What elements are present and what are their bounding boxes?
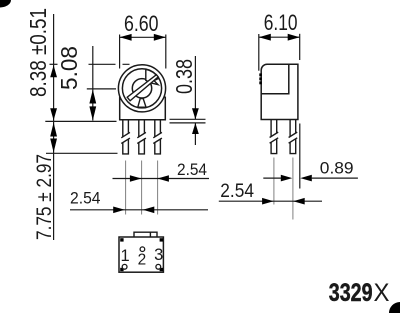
- svg-text:2.54: 2.54: [70, 189, 101, 208]
- svg-text:7.75 ± 2.97: 7.75 ± 2.97: [33, 154, 56, 240]
- svg-text:6.60: 6.60: [124, 11, 159, 36]
- svg-text:0.89: 0.89: [320, 159, 354, 178]
- svg-text:1: 1: [121, 247, 130, 265]
- svg-text:2.54: 2.54: [177, 160, 207, 179]
- svg-text:X: X: [374, 279, 390, 307]
- svg-text:5.08: 5.08: [56, 46, 82, 90]
- svg-text:2: 2: [138, 252, 147, 269]
- svg-text:8.38 ±0.51: 8.38 ±0.51: [25, 8, 51, 97]
- svg-text:0.38: 0.38: [171, 59, 197, 94]
- svg-text:2.54: 2.54: [220, 181, 254, 202]
- svg-text:6.10: 6.10: [264, 10, 298, 35]
- svg-text:3: 3: [154, 246, 163, 264]
- svg-text:3329: 3329: [329, 279, 373, 307]
